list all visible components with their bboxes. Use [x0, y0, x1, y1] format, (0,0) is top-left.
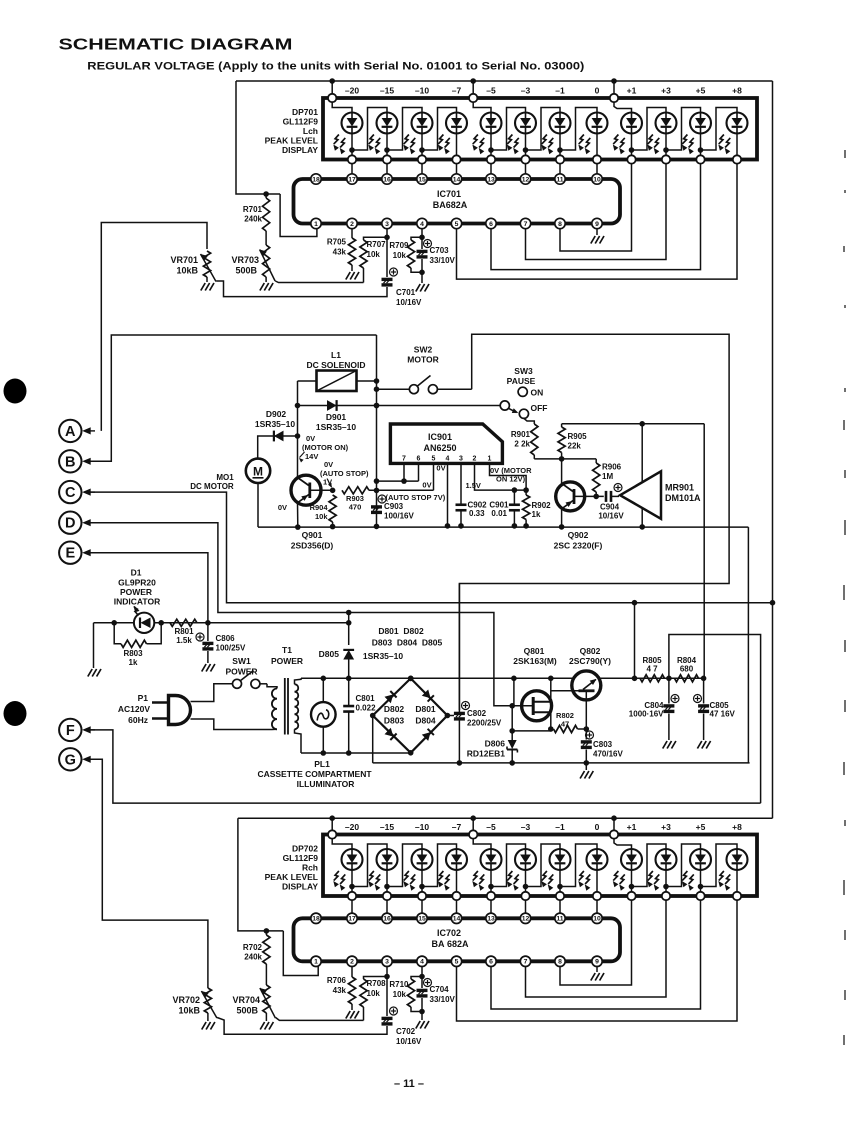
wire regulated output loop to F	[669, 635, 761, 804]
svg-text:REGULAR VOLTAGE (Apply to the: REGULAR VOLTAGE (Apply to the units with…	[87, 61, 584, 73]
node connector D	[59, 512, 81, 534]
svg-text:G: G	[65, 752, 76, 768]
svg-text:MOTOR: MOTOR	[407, 355, 438, 365]
svg-text:E: E	[65, 546, 75, 562]
svg-text:17: 17	[348, 176, 356, 183]
resistor R709 10k	[407, 240, 414, 268]
LED DP701 segment -10	[412, 113, 433, 134]
svg-text:D801 D802: D801 D802	[378, 626, 424, 636]
op-amp IC901 AN6250	[390, 424, 502, 463]
LED DP702 segment -20	[342, 849, 363, 870]
wire supply trunk to R702 and pin1	[238, 818, 283, 931]
wire supply trunk to R701 and pin1	[236, 81, 280, 194]
resistor R708 10k	[360, 979, 367, 1007]
node connector B	[59, 450, 81, 472]
svg-text:10kB: 10kB	[178, 1006, 200, 1016]
svg-text:Q802: Q802	[580, 646, 601, 656]
svg-text:+8: +8	[732, 822, 742, 832]
pins IC701 18-10	[311, 174, 321, 184]
svg-text:R906: R906	[602, 463, 622, 472]
svg-text:D901: D901	[326, 412, 347, 422]
svg-text:+1: +1	[627, 822, 637, 832]
svg-text:ILLUMINATOR: ILLUMINATOR	[297, 779, 355, 789]
svg-text:M: M	[253, 465, 263, 479]
ground pin9 bottom	[596, 967, 598, 973]
wire LED cathode chain Lch	[351, 134, 353, 156]
resistor R707 10k	[360, 240, 367, 268]
wire supply to MR901	[562, 423, 705, 425]
wire top supply line Lch	[236, 80, 773, 82]
svg-text:GL112F9: GL112F9	[283, 853, 319, 863]
op-amp IC701 BA682A outline	[294, 179, 621, 224]
svg-text:C701: C701	[396, 288, 416, 297]
resistor R802 47	[554, 725, 578, 732]
svg-text:9: 9	[595, 959, 599, 966]
potentiometer VR704 500B	[263, 985, 270, 1013]
wire anode feeds Lch	[332, 102, 352, 113]
LED DP701 segment -7	[446, 113, 467, 134]
svg-text:POWER: POWER	[120, 587, 152, 597]
svg-text:0V: 0V	[422, 481, 431, 490]
wire B-line to solenoid node	[84, 335, 377, 461]
LED DP702 segment +3	[656, 849, 677, 870]
svg-text:R801: R801	[174, 627, 194, 636]
svg-text:C806: C806	[216, 634, 236, 643]
svg-text:10: 10	[593, 176, 601, 183]
svg-text:A: A	[65, 424, 76, 440]
pins IC701 1-9	[311, 218, 321, 228]
LED DP702 segment -5	[481, 849, 502, 870]
LED DP702 segment 0	[587, 849, 608, 870]
svg-text:– 11 –: – 11 –	[394, 1078, 424, 1090]
LED DP702 segment -3	[515, 849, 536, 870]
inductor L1 DC SOLENOID	[317, 371, 357, 392]
ground D1 left	[88, 669, 92, 677]
capacitor C805 47/16V	[703, 678, 705, 703]
svg-text:PL1: PL1	[314, 759, 330, 769]
wire pin3 node	[386, 229, 388, 238]
wire pin7 to +3 Rch	[526, 900, 667, 997]
svg-text:12: 12	[522, 176, 530, 183]
svg-text:43k: 43k	[333, 248, 347, 257]
svg-text:100/16V: 100/16V	[384, 512, 414, 521]
svg-text:3: 3	[385, 221, 389, 228]
diode D902 1SR35-10	[258, 436, 298, 459]
resistor R705 43k	[351, 229, 353, 238]
svg-text:4: 4	[446, 456, 450, 463]
svg-text:–7: –7	[452, 86, 462, 96]
potentiometer VR702 10kB	[207, 986, 209, 988]
wire F-line	[84, 730, 761, 803]
svg-text:VR703: VR703	[231, 255, 259, 265]
wire bridge plus to C802	[447, 715, 454, 717]
svg-text:10k: 10k	[393, 990, 407, 999]
svg-text:15: 15	[418, 916, 426, 923]
wire pin8 to +1 Rch	[560, 900, 632, 985]
svg-text:–5: –5	[486, 822, 496, 832]
svg-text:1: 1	[488, 456, 492, 463]
svg-text:ON: ON	[531, 388, 544, 398]
svg-text:680: 680	[680, 665, 694, 674]
svg-text:R707: R707	[367, 240, 387, 249]
resistor R702 240k	[265, 931, 267, 935]
svg-text:13: 13	[487, 176, 495, 183]
svg-text:–15: –15	[380, 822, 394, 832]
svg-text:100/25V: 100/25V	[216, 644, 246, 653]
svg-text:10/16V: 10/16V	[396, 298, 422, 307]
svg-text:D902: D902	[266, 409, 287, 419]
svg-text:CASSETTE COMPARTMENT: CASSETTE COMPARTMENT	[257, 769, 372, 779]
resistor R801 1.5k	[170, 619, 197, 626]
wire E-line	[84, 553, 208, 623]
svg-text:–15: –15	[380, 86, 394, 96]
svg-text:PAUSE: PAUSE	[507, 376, 536, 386]
svg-text:GL9PR20: GL9PR20	[118, 578, 156, 588]
svg-text:10: 10	[593, 916, 601, 923]
wire G-line	[84, 759, 208, 986]
resistor R906 1M	[595, 459, 597, 463]
svg-text:1SR35–10: 1SR35–10	[316, 422, 356, 432]
svg-text:DP701: DP701	[292, 107, 318, 117]
svg-text:470/16V: 470/16V	[593, 750, 623, 759]
potentiometer VR701 10kB	[203, 251, 210, 277]
svg-text:4 7: 4 7	[646, 665, 658, 674]
svg-text:14V: 14V	[305, 452, 318, 461]
LED DP701 segment -15	[377, 113, 398, 134]
svg-text:6: 6	[417, 456, 421, 463]
svg-text:VR701: VR701	[170, 255, 198, 265]
svg-text:D806: D806	[485, 739, 506, 749]
svg-text:15: 15	[418, 176, 426, 183]
svg-text:SCHEMATIC DIAGRAM: SCHEMATIC DIAGRAM	[59, 37, 293, 54]
svg-text:22k: 22k	[568, 442, 582, 451]
LED DP702 segment +5	[690, 849, 711, 870]
svg-text:(MOTOR ON): (MOTOR ON)	[302, 443, 349, 452]
node DP702 anode pins	[328, 830, 336, 838]
svg-text:C904: C904	[600, 503, 620, 512]
capacitor C704 33/10V	[421, 977, 423, 989]
LED DP701 segment +5	[690, 113, 711, 134]
svg-text:+5: +5	[696, 86, 706, 96]
svg-text:–3: –3	[521, 822, 531, 832]
bridge rectifier D801-D804	[373, 678, 448, 752]
svg-text:–3: –3	[521, 86, 531, 96]
node connector A	[59, 420, 81, 442]
svg-text:10/16V: 10/16V	[598, 512, 624, 521]
svg-text:R708: R708	[367, 979, 387, 988]
wire bridge minus to bottom rail	[372, 716, 374, 763]
LED DP702 segment -7	[446, 849, 467, 870]
svg-text:43k: 43k	[333, 986, 347, 995]
svg-text:R803: R803	[123, 649, 143, 658]
svg-text:9: 9	[595, 221, 599, 228]
svg-text:11: 11	[556, 916, 563, 923]
node connector G	[59, 748, 81, 770]
wire R901/R905/R906 node	[534, 458, 596, 460]
wire plug to SW1 and T1	[191, 684, 233, 702]
LED display DP702 package outline	[323, 835, 757, 897]
resistor R902 1k	[523, 495, 530, 520]
lamp PL1	[311, 702, 336, 727]
capacitor C802 2200/25V	[454, 712, 465, 715]
wire pin3 node Rch	[386, 967, 388, 977]
registration dot lower	[4, 701, 27, 726]
wire motor section ground bus	[258, 526, 748, 528]
wire C-line	[84, 492, 773, 603]
svg-text:PEAK LEVEL: PEAK LEVEL	[265, 872, 318, 882]
svg-text:IC701: IC701	[437, 189, 461, 199]
wire A-line to VR701	[101, 223, 207, 431]
svg-text:5: 5	[432, 456, 436, 463]
transistor Q802 2SC790(Y)	[572, 671, 601, 700]
svg-text:C702: C702	[396, 1027, 416, 1036]
node connector E	[59, 542, 81, 564]
svg-text:–20: –20	[345, 86, 359, 96]
svg-text:–10: –10	[415, 822, 429, 832]
wire cathode to IC702 pins	[351, 900, 353, 913]
resistor R710 10k	[407, 979, 414, 1007]
pins IC702 1-9	[311, 956, 321, 966]
LED display DP701 package outline	[323, 98, 757, 160]
wire pin1 line	[490, 463, 527, 495]
svg-text:2SD356(D): 2SD356(D)	[291, 541, 334, 551]
svg-text:GL112F9: GL112F9	[283, 117, 319, 127]
LED DP701 segment -3	[515, 113, 536, 134]
svg-text:10k: 10k	[393, 251, 407, 260]
svg-text:2: 2	[350, 959, 354, 966]
capacitor C803 470/16V	[585, 729, 587, 740]
wire ground bus to bottom rail	[747, 527, 749, 763]
LED DP702 segment -10	[412, 849, 433, 870]
svg-text:0.33: 0.33	[469, 509, 485, 518]
svg-text:C903: C903	[384, 502, 404, 511]
svg-text:8: 8	[558, 221, 562, 228]
svg-text:10k: 10k	[315, 512, 328, 521]
wire pin5 to +8 Rch	[457, 900, 738, 1021]
svg-text:VR704: VR704	[232, 995, 260, 1005]
svg-text:POWER: POWER	[271, 656, 303, 666]
svg-text:POWER: POWER	[225, 667, 257, 677]
wire D1 line	[94, 622, 134, 624]
svg-text:+8: +8	[732, 86, 742, 96]
svg-text:1SR35–10: 1SR35–10	[255, 419, 295, 429]
resistor R904 10k	[330, 488, 336, 494]
svg-text:47: 47	[561, 720, 569, 729]
svg-text:17: 17	[348, 916, 356, 923]
svg-text:14: 14	[453, 176, 461, 183]
svg-text:BA 682A: BA 682A	[431, 939, 469, 949]
node supply feed junctions Rch	[329, 815, 335, 821]
svg-text:+1: +1	[627, 86, 637, 96]
resistor R805 4.7	[640, 675, 665, 682]
capacitor C902 0.33	[460, 463, 462, 504]
wire pin2 1.5V line	[475, 463, 527, 490]
svg-text:R710: R710	[389, 980, 409, 989]
svg-text:240k: 240k	[244, 215, 262, 224]
capacitor C801 0.022	[348, 678, 350, 705]
node connector C	[59, 481, 81, 503]
wire pin7 to +3	[526, 164, 667, 260]
svg-text:2200/25V: 2200/25V	[467, 719, 502, 728]
LED DP701 segment -20	[342, 113, 363, 134]
wire anode feeds Rch	[332, 839, 352, 849]
op-amp IC702 BA682A outline	[294, 918, 621, 961]
node DP701 anode pins	[328, 94, 336, 102]
svg-text:2SK163(M): 2SK163(M)	[513, 656, 557, 666]
svg-text:0V: 0V	[324, 460, 333, 469]
LED D1 power indicator	[134, 613, 154, 633]
svg-text:R706: R706	[327, 976, 347, 985]
LED DP701 segment -1	[550, 113, 571, 134]
wire right trunk	[772, 81, 774, 818]
svg-text:R701: R701	[243, 205, 263, 214]
registration dot upper	[4, 379, 27, 404]
capacitor C903 100/16V	[371, 505, 382, 508]
svg-text:Rch: Rch	[302, 863, 318, 873]
svg-text:DP702: DP702	[292, 844, 318, 854]
svg-text:DM101A: DM101A	[665, 493, 701, 503]
svg-text:16: 16	[383, 176, 391, 183]
wire LED cathode chain Rch	[351, 870, 353, 892]
amplifier MR901 DM101A	[620, 471, 661, 519]
zener D806 RD12EB1	[511, 706, 513, 740]
svg-text:IC901: IC901	[428, 432, 452, 442]
pins IC702 18-10	[311, 913, 321, 923]
svg-text:33/10V: 33/10V	[430, 256, 456, 265]
wire VR701 wiper to C701	[216, 281, 387, 297]
resistor R901 2.2k	[524, 418, 534, 424]
switch SW1 POWER	[233, 679, 242, 688]
transistor Q901 2SD356(D)	[297, 381, 299, 478]
svg-text:R902: R902	[532, 501, 552, 510]
capacitor C901 0.01	[513, 490, 515, 505]
svg-text:0: 0	[595, 86, 600, 96]
svg-text:R901: R901	[511, 430, 531, 439]
svg-text:R709: R709	[389, 241, 409, 250]
svg-text:1.5k: 1.5k	[176, 636, 192, 645]
potentiometer VR703 500B	[263, 245, 270, 277]
svg-text:6: 6	[489, 959, 493, 966]
svg-text:C704: C704	[430, 985, 450, 994]
svg-text:7: 7	[402, 456, 406, 463]
svg-text:C803: C803	[593, 740, 613, 749]
svg-text:Q801: Q801	[524, 646, 545, 656]
svg-text:R702: R702	[243, 943, 263, 952]
svg-text:470: 470	[349, 503, 362, 512]
svg-text:47 16V: 47 16V	[710, 710, 736, 719]
svg-text:1M: 1M	[602, 472, 613, 481]
svg-text:D804: D804	[415, 716, 436, 726]
LED DP701 segment +8	[727, 113, 748, 134]
svg-text:60Hz: 60Hz	[128, 715, 148, 725]
svg-text:–5: –5	[486, 86, 496, 96]
svg-text:18: 18	[312, 176, 320, 183]
wire cathode to IC701 pins	[351, 164, 353, 175]
switch SW2 MOTOR	[377, 388, 410, 390]
svg-text:D805: D805	[319, 649, 340, 659]
svg-text:PEAK LEVEL: PEAK LEVEL	[265, 136, 318, 146]
svg-text:P1: P1	[138, 693, 149, 703]
LED DP702 segment +8	[727, 849, 748, 870]
svg-text:1.5V: 1.5V	[466, 481, 481, 490]
svg-text:8: 8	[558, 959, 562, 966]
svg-text:5: 5	[455, 959, 459, 966]
svg-text:C802: C802	[467, 709, 487, 718]
svg-text:10k: 10k	[367, 989, 381, 998]
node connector F	[59, 719, 81, 741]
transformer T1 POWER	[272, 689, 277, 730]
resistor R905 22k	[561, 424, 563, 427]
transistor Q902 2SC2320(F)	[561, 459, 563, 483]
svg-text:D803: D803	[384, 716, 405, 726]
svg-text:18: 18	[312, 916, 320, 923]
svg-text:–7: –7	[452, 822, 462, 832]
svg-text:MR901: MR901	[665, 483, 694, 493]
scan artifact dashes	[844, 150, 845, 1045]
svg-text:T1: T1	[282, 645, 292, 655]
svg-text:D803 D804 D805: D803 D804 D805	[372, 638, 443, 648]
svg-text:AN6250: AN6250	[423, 443, 456, 453]
resistor R903 470	[342, 487, 369, 494]
wire pin8 to +1	[560, 164, 632, 252]
svg-text:VR702: VR702	[172, 995, 200, 1005]
svg-text:C801: C801	[356, 694, 376, 703]
svg-text:2 2k: 2 2k	[514, 440, 530, 449]
svg-text:1: 1	[314, 221, 318, 228]
svg-text:2SC790(Y): 2SC790(Y)	[569, 656, 611, 666]
diode bridge arms	[385, 694, 394, 703]
svg-text:500B: 500B	[235, 266, 257, 276]
svg-text:–10: –10	[415, 86, 429, 96]
svg-text:ON 12V): ON 12V)	[496, 475, 526, 484]
svg-text:16: 16	[383, 916, 391, 923]
motor MO1 DC MOTOR	[246, 459, 270, 483]
svg-text:Q901: Q901	[302, 530, 323, 540]
svg-text:R905: R905	[568, 432, 588, 441]
svg-text:RD12EB1: RD12EB1	[467, 749, 506, 759]
svg-text:7: 7	[524, 959, 528, 966]
svg-text:10kB: 10kB	[176, 266, 198, 276]
svg-text:DISPLAY: DISPLAY	[282, 882, 318, 892]
svg-text:B: B	[65, 454, 75, 470]
svg-text:–1: –1	[555, 86, 565, 96]
wire solenoid/motor feed vertical	[376, 335, 378, 526]
LED DP701 segment 0	[587, 113, 608, 134]
svg-text:IC702: IC702	[437, 928, 461, 938]
svg-text:10/16V: 10/16V	[396, 1037, 422, 1046]
wire D-line	[84, 523, 512, 706]
wire pin6 to +5 Rch	[491, 900, 701, 1009]
capacitor C804 1000/16V	[668, 678, 670, 703]
svg-text:C: C	[65, 485, 76, 501]
svg-text:MO1: MO1	[216, 473, 234, 482]
svg-text:D802: D802	[384, 704, 405, 714]
svg-text:DC MOTOR: DC MOTOR	[190, 482, 234, 491]
svg-text:(AUTO STOP 7V): (AUTO STOP 7V)	[386, 493, 446, 502]
wire pin4 node	[421, 229, 423, 238]
capacitor C702 10/16V	[386, 977, 388, 1017]
wire pins 6,7 0V line	[377, 480, 419, 482]
svg-text:C703: C703	[430, 246, 450, 255]
svg-text:0V: 0V	[278, 503, 287, 512]
svg-text:DISPLAY: DISPLAY	[282, 145, 318, 155]
capacitor C904 10/16V	[605, 491, 608, 502]
LED DP702 segment -15	[377, 849, 398, 870]
wire AC top rail	[301, 677, 704, 679]
LED DP701 segment -5	[481, 113, 502, 134]
ground pin9 top	[596, 229, 598, 235]
svg-text:0.022: 0.022	[356, 704, 377, 713]
